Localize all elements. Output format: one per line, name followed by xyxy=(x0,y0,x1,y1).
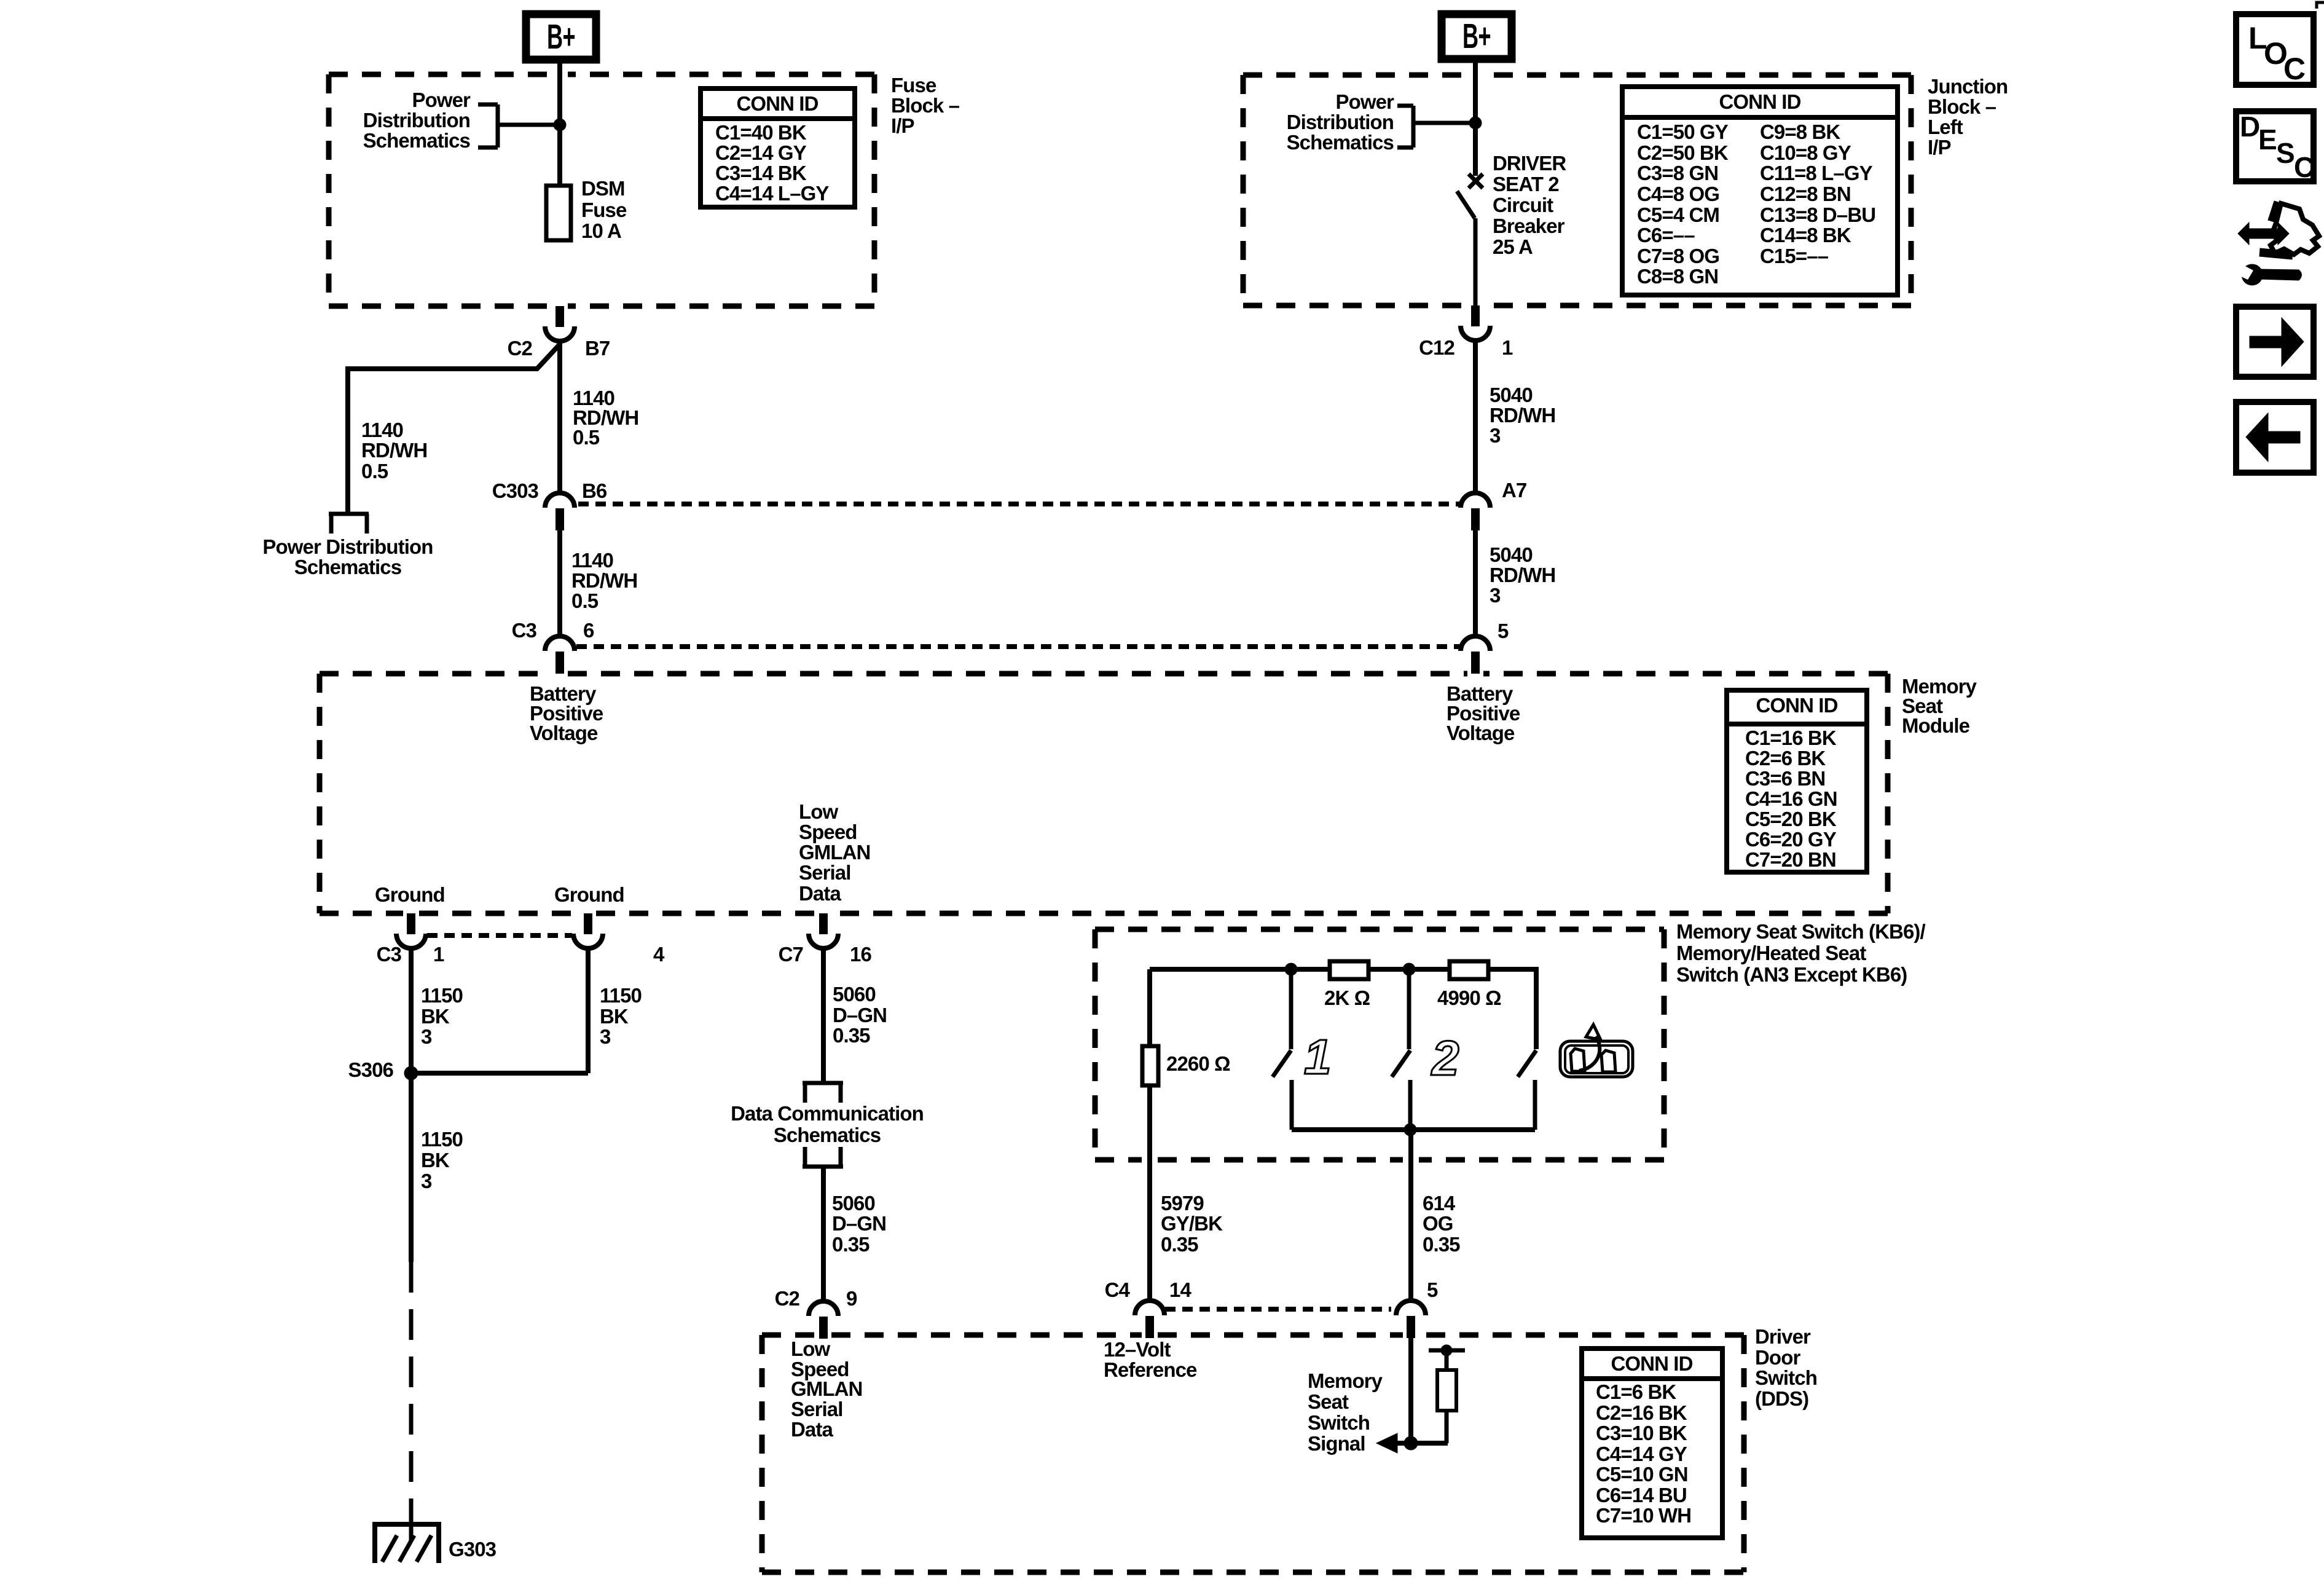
arrowhead memory seat switch signal xyxy=(1376,1433,1397,1453)
svg-text:6: 6 xyxy=(583,619,594,642)
memory seat switch dashed box xyxy=(1095,929,1664,1160)
connector C12/1 (junction block bottom) xyxy=(1471,305,1480,326)
switch 1 xyxy=(1273,969,1292,1130)
svg-text:C4=14 GY: C4=14 GY xyxy=(1596,1443,1687,1465)
svg-text:5040: 5040 xyxy=(1490,384,1533,406)
connector C3/1 (module bottom) xyxy=(407,913,415,934)
svg-text:Left: Left xyxy=(1928,116,1963,138)
svg-text:1150: 1150 xyxy=(421,1128,463,1151)
svg-text:C7=8 OG: C7=8 OG xyxy=(1637,245,1719,267)
svg-text:1140: 1140 xyxy=(361,419,403,441)
B+ battery positive terminal (left) xyxy=(526,14,596,60)
svg-text:DRIVER: DRIVER xyxy=(1493,152,1566,175)
CONN ID table (fuse block) xyxy=(701,89,855,207)
svg-text:Serial: Serial xyxy=(791,1398,843,1420)
svg-text:B7: B7 xyxy=(585,337,610,360)
svg-text:Signal: Signal xyxy=(1308,1432,1365,1455)
svg-text:CONN ID: CONN ID xyxy=(1611,1352,1692,1375)
svg-text:C: C xyxy=(2283,52,2305,86)
wire 2260 resistor bottom / 5979 xyxy=(1147,1085,1152,1301)
bracket data communication (lower) xyxy=(803,1147,843,1167)
svg-text:C3=6 BN: C3=6 BN xyxy=(1745,767,1825,790)
svg-text:C2: C2 xyxy=(508,337,533,360)
svg-text:Block –: Block – xyxy=(1928,95,1996,118)
fuse DSM 10A xyxy=(546,186,571,240)
svg-text:0.35: 0.35 xyxy=(833,1024,870,1047)
svg-text:0.5: 0.5 xyxy=(573,426,600,449)
switch 2 xyxy=(1392,969,1410,1130)
svg-text:Memory: Memory xyxy=(1308,1369,1383,1392)
svg-text:OG: OG xyxy=(1423,1212,1453,1235)
wire signal horizontal xyxy=(1383,1441,1448,1446)
wire 5060 D-GN segment 2 xyxy=(821,1167,826,1301)
wire 1140 RD/WH segment 2 xyxy=(557,530,562,636)
svg-text:C9=8 BK: C9=8 BK xyxy=(1760,120,1840,143)
switch 3 (seat memory) xyxy=(1518,967,1536,1130)
junction dot resistor top xyxy=(1441,1345,1452,1356)
svg-text:CONN ID: CONN ID xyxy=(1756,694,1837,717)
svg-text:C6=20 GY: C6=20 GY xyxy=(1745,828,1837,851)
svg-text:C4=16 GN: C4=16 GN xyxy=(1745,787,1837,810)
svg-text:B6: B6 xyxy=(582,479,607,502)
svg-text:2: 2 xyxy=(1431,1031,1459,1085)
svg-text:Power: Power xyxy=(412,89,471,111)
svg-text:1: 1 xyxy=(1502,336,1513,359)
adjustable component / wrench icon xyxy=(2236,201,2319,285)
svg-text:S306: S306 xyxy=(348,1058,394,1081)
wire 1140 RD/WH segment 1 xyxy=(557,342,562,493)
svg-text:2260 Ω: 2260 Ω xyxy=(1166,1052,1230,1075)
svg-text:B+: B+ xyxy=(1462,17,1491,56)
svg-text:BK: BK xyxy=(600,1005,629,1028)
svg-text:Distribution: Distribution xyxy=(363,109,470,132)
connector C7/16 (module bottom) xyxy=(819,913,828,934)
LOC navigation icon xyxy=(2236,14,2314,85)
svg-text:RD/WH: RD/WH xyxy=(1490,404,1555,427)
svg-text:C1=16 BK: C1=16 BK xyxy=(1745,726,1837,749)
svg-text:Voltage: Voltage xyxy=(1447,722,1515,744)
svg-text:D: D xyxy=(2240,111,2259,143)
svg-text:2K Ω: 2K Ω xyxy=(1324,986,1370,1009)
svg-text:C1=40 BK: C1=40 BK xyxy=(715,121,807,144)
svg-text:C1=6 BK: C1=6 BK xyxy=(1596,1380,1676,1403)
svg-text:C3: C3 xyxy=(377,943,402,966)
svg-text:3: 3 xyxy=(600,1025,611,1048)
svg-text:C13=8 D–BU: C13=8 D–BU xyxy=(1760,203,1875,226)
svg-text:14: 14 xyxy=(1169,1278,1191,1301)
svg-text:S: S xyxy=(2276,137,2295,169)
svg-text:C6=––: C6=–– xyxy=(1637,224,1695,246)
svg-text:D–GN: D–GN xyxy=(832,1212,886,1235)
svg-text:Power Distribution: Power Distribution xyxy=(262,535,433,558)
svg-text:1: 1 xyxy=(1304,1030,1331,1084)
svg-text:Fuse: Fuse xyxy=(581,199,627,221)
svg-text:GMLAN: GMLAN xyxy=(791,1377,862,1400)
connector C3/4 (module bottom) xyxy=(584,913,592,934)
svg-text:C4: C4 xyxy=(1105,1278,1131,1301)
svg-text:1150: 1150 xyxy=(600,984,642,1007)
svg-text:Ground: Ground xyxy=(554,883,624,906)
svg-text:1140: 1140 xyxy=(571,549,613,572)
wire 1150 BK dashed off-page xyxy=(409,1262,414,1522)
connector 5 (module top right) xyxy=(1461,636,1490,651)
svg-text:0.35: 0.35 xyxy=(832,1233,870,1256)
ground G303 xyxy=(372,1524,441,1563)
svg-text:3: 3 xyxy=(1490,424,1501,447)
svg-text:16: 16 xyxy=(850,943,871,966)
svg-text:5979: 5979 xyxy=(1161,1192,1204,1215)
svg-text:DSM: DSM xyxy=(581,177,625,200)
svg-text:C15=––: C15=–– xyxy=(1760,245,1829,267)
svg-text:Switch: Switch xyxy=(1755,1366,1817,1389)
svg-text:Low: Low xyxy=(791,1337,831,1360)
bracket data communication (upper) xyxy=(803,1083,843,1103)
wire 1150 BK to ground solid xyxy=(409,1073,414,1262)
connector C4/14 (DDS top) xyxy=(1135,1301,1164,1315)
svg-text:C2=16 BK: C2=16 BK xyxy=(1596,1401,1687,1424)
svg-text:5040: 5040 xyxy=(1490,543,1533,566)
wire 1150 BK pin1 xyxy=(409,947,414,1073)
off-page bracket power distribution xyxy=(329,514,369,534)
svg-text:C7: C7 xyxy=(779,943,803,966)
svg-text:C4=14 L–GY: C4=14 L–GY xyxy=(715,182,829,205)
wire B+ to fuse block junction xyxy=(557,60,562,186)
fuse block - I/P dashed box xyxy=(329,74,874,306)
svg-text:C5=20 BK: C5=20 BK xyxy=(1745,808,1837,830)
svg-text:C3=14 BK: C3=14 BK xyxy=(715,162,807,184)
dashed connector line B6 to A7 xyxy=(578,502,1461,506)
dashed connector line 6 to 5 xyxy=(576,644,1461,649)
wire 5040 RD/WH segment 2 xyxy=(1473,530,1478,636)
wire memory seat switch signal vertical xyxy=(1408,1336,1413,1443)
dashed connector line 1 to 4 xyxy=(427,933,572,938)
svg-text:Low: Low xyxy=(799,800,839,823)
svg-text:B+: B+ xyxy=(547,17,575,57)
DESC navigation icon xyxy=(2236,111,2314,181)
svg-text:C10=8 GY: C10=8 GY xyxy=(1760,141,1851,164)
wire 5060 D-GN segment 1 xyxy=(821,947,826,1083)
CONN ID table (junction block) xyxy=(1622,87,1898,295)
svg-text:Power: Power xyxy=(1335,90,1394,113)
svg-text:E: E xyxy=(2258,124,2277,156)
svg-text:614: 614 xyxy=(1423,1192,1456,1215)
svg-text:Ground: Ground xyxy=(375,883,445,906)
svg-text:C4=8 OG: C4=8 OG xyxy=(1637,183,1719,205)
svg-text:Module: Module xyxy=(1902,714,1970,737)
svg-text:1150: 1150 xyxy=(421,984,463,1007)
svg-text:Schematics: Schematics xyxy=(363,129,470,152)
svg-text:C1=50 GY: C1=50 GY xyxy=(1637,120,1729,143)
resistor 2260 ohm xyxy=(1142,1046,1158,1085)
svg-text:Schematics: Schematics xyxy=(1287,131,1394,154)
connector C2/B7 (fuse block bottom) xyxy=(555,306,564,327)
svg-text:Circuit: Circuit xyxy=(1493,194,1553,216)
junction block - left I/P dashed box xyxy=(1243,75,1911,305)
seat memory icon xyxy=(1560,1025,1633,1077)
wire 1140 branch diagonal xyxy=(348,344,560,512)
svg-text:C5=10 GN: C5=10 GN xyxy=(1596,1463,1688,1486)
svg-text:C8=8 GN: C8=8 GN xyxy=(1637,265,1718,288)
svg-text:C6=14 BU: C6=14 BU xyxy=(1596,1484,1687,1506)
svg-text:I/P: I/P xyxy=(1928,136,1951,159)
connector C3/6 (module top left) xyxy=(545,636,575,651)
svg-text:C2=14 GY: C2=14 GY xyxy=(715,141,807,164)
svg-text:C7=10 WH: C7=10 WH xyxy=(1596,1504,1691,1527)
svg-text:Memory Seat Switch (KB6)/: Memory Seat Switch (KB6)/ xyxy=(1676,920,1925,943)
svg-text:C: C xyxy=(2294,151,2314,183)
svg-text:Voltage: Voltage xyxy=(530,722,598,744)
svg-text:0.5: 0.5 xyxy=(571,589,599,612)
svg-text:RD/WH: RD/WH xyxy=(571,569,637,592)
svg-text:Data Communication: Data Communication xyxy=(731,1102,924,1125)
resistor 4990 ohm xyxy=(1450,961,1488,979)
svg-text:D–GN: D–GN xyxy=(833,1004,887,1026)
switch top rail xyxy=(1150,967,1536,972)
svg-text:(DDS): (DDS) xyxy=(1755,1387,1808,1410)
svg-text:C5=4 CM: C5=4 CM xyxy=(1637,203,1719,226)
svg-text:G303: G303 xyxy=(449,1538,497,1561)
svg-text:I/P: I/P xyxy=(891,114,914,137)
memory seat module dashed box xyxy=(320,674,1888,913)
wire 2260 resistor top xyxy=(1147,969,1152,1046)
connector A7 xyxy=(1461,493,1490,508)
splice S306 xyxy=(404,1066,418,1080)
svg-text:9: 9 xyxy=(846,1287,857,1310)
svg-text:Switch (AN3 Except KB6): Switch (AN3 Except KB6) xyxy=(1676,963,1907,986)
resistor DDS internal xyxy=(1429,1350,1465,1443)
svg-text:Driver: Driver xyxy=(1755,1325,1811,1348)
page corner mark xyxy=(2317,2,2324,9)
svg-text:0.35: 0.35 xyxy=(1161,1233,1198,1256)
svg-text:C3=10 BK: C3=10 BK xyxy=(1596,1422,1687,1444)
wire B+ to breaker xyxy=(1473,59,1478,176)
svg-text:C12: C12 xyxy=(1419,336,1454,359)
svg-text:Memory/Heated Seat: Memory/Heated Seat xyxy=(1676,942,1866,964)
svg-text:4990 Ω: 4990 Ω xyxy=(1437,986,1501,1009)
svg-text:BK: BK xyxy=(421,1149,450,1171)
dashed connector line 14 to 5 xyxy=(1165,1307,1391,1312)
svg-text:Schematics: Schematics xyxy=(294,556,401,578)
svg-text:0.5: 0.5 xyxy=(361,460,388,482)
connector C2/9 (DDS top) xyxy=(809,1301,838,1316)
svg-text:Data: Data xyxy=(799,882,841,905)
svg-text:0.35: 0.35 xyxy=(1423,1233,1460,1256)
svg-text:3: 3 xyxy=(421,1170,432,1192)
svg-text:5060: 5060 xyxy=(832,1192,875,1215)
connector C303/B6 xyxy=(545,493,575,508)
driver door switch dashed box xyxy=(762,1335,1744,1572)
CONN ID table (memory seat module) xyxy=(1727,690,1867,872)
svg-text:GMLAN: GMLAN xyxy=(799,841,870,864)
svg-text:5: 5 xyxy=(1498,620,1509,642)
svg-text:C2: C2 xyxy=(775,1287,800,1310)
svg-text:Speed: Speed xyxy=(799,821,857,843)
svg-text:C3=8 GN: C3=8 GN xyxy=(1637,162,1718,184)
svg-text:25 A: 25 A xyxy=(1493,235,1533,258)
svg-text:Fuse: Fuse xyxy=(891,74,936,96)
svg-text:BK: BK xyxy=(421,1005,450,1028)
junction dot on B+ wire (fuse block) xyxy=(554,119,566,131)
svg-text:Seat: Seat xyxy=(1308,1390,1349,1413)
svg-text:4: 4 xyxy=(653,943,665,966)
svg-text:CONN ID: CONN ID xyxy=(736,92,818,115)
svg-text:Reference: Reference xyxy=(1104,1358,1197,1381)
wire 1150 BK pin4 xyxy=(586,947,591,1073)
svg-text:SEAT 2: SEAT 2 xyxy=(1493,173,1559,195)
wire 5040 RD/WH segment 1 xyxy=(1473,342,1478,493)
circuit breaker DRIVER SEAT 2 25A xyxy=(1457,174,1483,305)
junction dot switch 1 top xyxy=(1285,963,1297,975)
wire 614 OG xyxy=(1408,1130,1413,1301)
svg-text:Junction: Junction xyxy=(1928,75,2008,98)
svg-text:Switch: Switch xyxy=(1308,1411,1370,1434)
svg-text:GY/BK: GY/BK xyxy=(1161,1212,1223,1235)
svg-text:Serial: Serial xyxy=(799,861,851,884)
forward arrow icon xyxy=(2236,307,2314,377)
svg-text:3: 3 xyxy=(1490,584,1501,607)
CONN ID table (DDS) xyxy=(1582,1349,1722,1538)
svg-text:Schematics: Schematics xyxy=(774,1124,881,1146)
svg-text:RD/WH: RD/WH xyxy=(1490,564,1555,586)
switch bottom rail xyxy=(1292,1127,1535,1132)
svg-text:5060: 5060 xyxy=(833,983,876,1006)
svg-text:C12=8 BN: C12=8 BN xyxy=(1760,183,1851,205)
svg-text:C14=8 BK: C14=8 BK xyxy=(1760,224,1851,246)
svg-text:12–Volt: 12–Volt xyxy=(1104,1338,1171,1361)
junction dot switch bottom xyxy=(1404,1124,1416,1136)
svg-text:3: 3 xyxy=(421,1025,432,1048)
svg-text:Distribution: Distribution xyxy=(1287,111,1394,133)
svg-text:Block –: Block – xyxy=(891,94,960,117)
back arrow icon xyxy=(2236,402,2314,473)
svg-text:A7: A7 xyxy=(1502,479,1526,502)
junction dot signal xyxy=(1404,1436,1418,1450)
svg-text:CONN ID: CONN ID xyxy=(1719,90,1800,113)
svg-text:C3: C3 xyxy=(512,619,537,642)
bracket to power distribution schematics (right) xyxy=(1397,106,1475,148)
svg-text:C2=50 BK: C2=50 BK xyxy=(1637,141,1729,164)
wire S306 horizontal xyxy=(411,1071,588,1076)
svg-text:Breaker: Breaker xyxy=(1493,215,1565,237)
svg-text:C2=6 BK: C2=6 BK xyxy=(1745,747,1826,770)
svg-text:C11=8 L–GY: C11=8 L–GY xyxy=(1760,162,1873,184)
svg-text:C303: C303 xyxy=(492,479,539,502)
svg-text:10 A: 10 A xyxy=(581,219,621,242)
B+ battery positive terminal (right) xyxy=(1442,14,1512,59)
resistor 2K ohm xyxy=(1330,961,1368,979)
bracket to power distribution schematics xyxy=(478,104,560,148)
svg-text:Data: Data xyxy=(791,1418,833,1441)
svg-text:1: 1 xyxy=(433,943,444,966)
svg-text:Door: Door xyxy=(1755,1346,1800,1369)
svg-text:C7=20 BN: C7=20 BN xyxy=(1745,848,1836,871)
svg-text:5: 5 xyxy=(1427,1278,1438,1301)
connector 5 (DDS top) xyxy=(1396,1301,1426,1315)
junction dot switch 2 top xyxy=(1403,963,1415,975)
junction dot on B+ wire (junction block) xyxy=(1469,117,1482,129)
svg-text:RD/WH: RD/WH xyxy=(361,439,427,462)
